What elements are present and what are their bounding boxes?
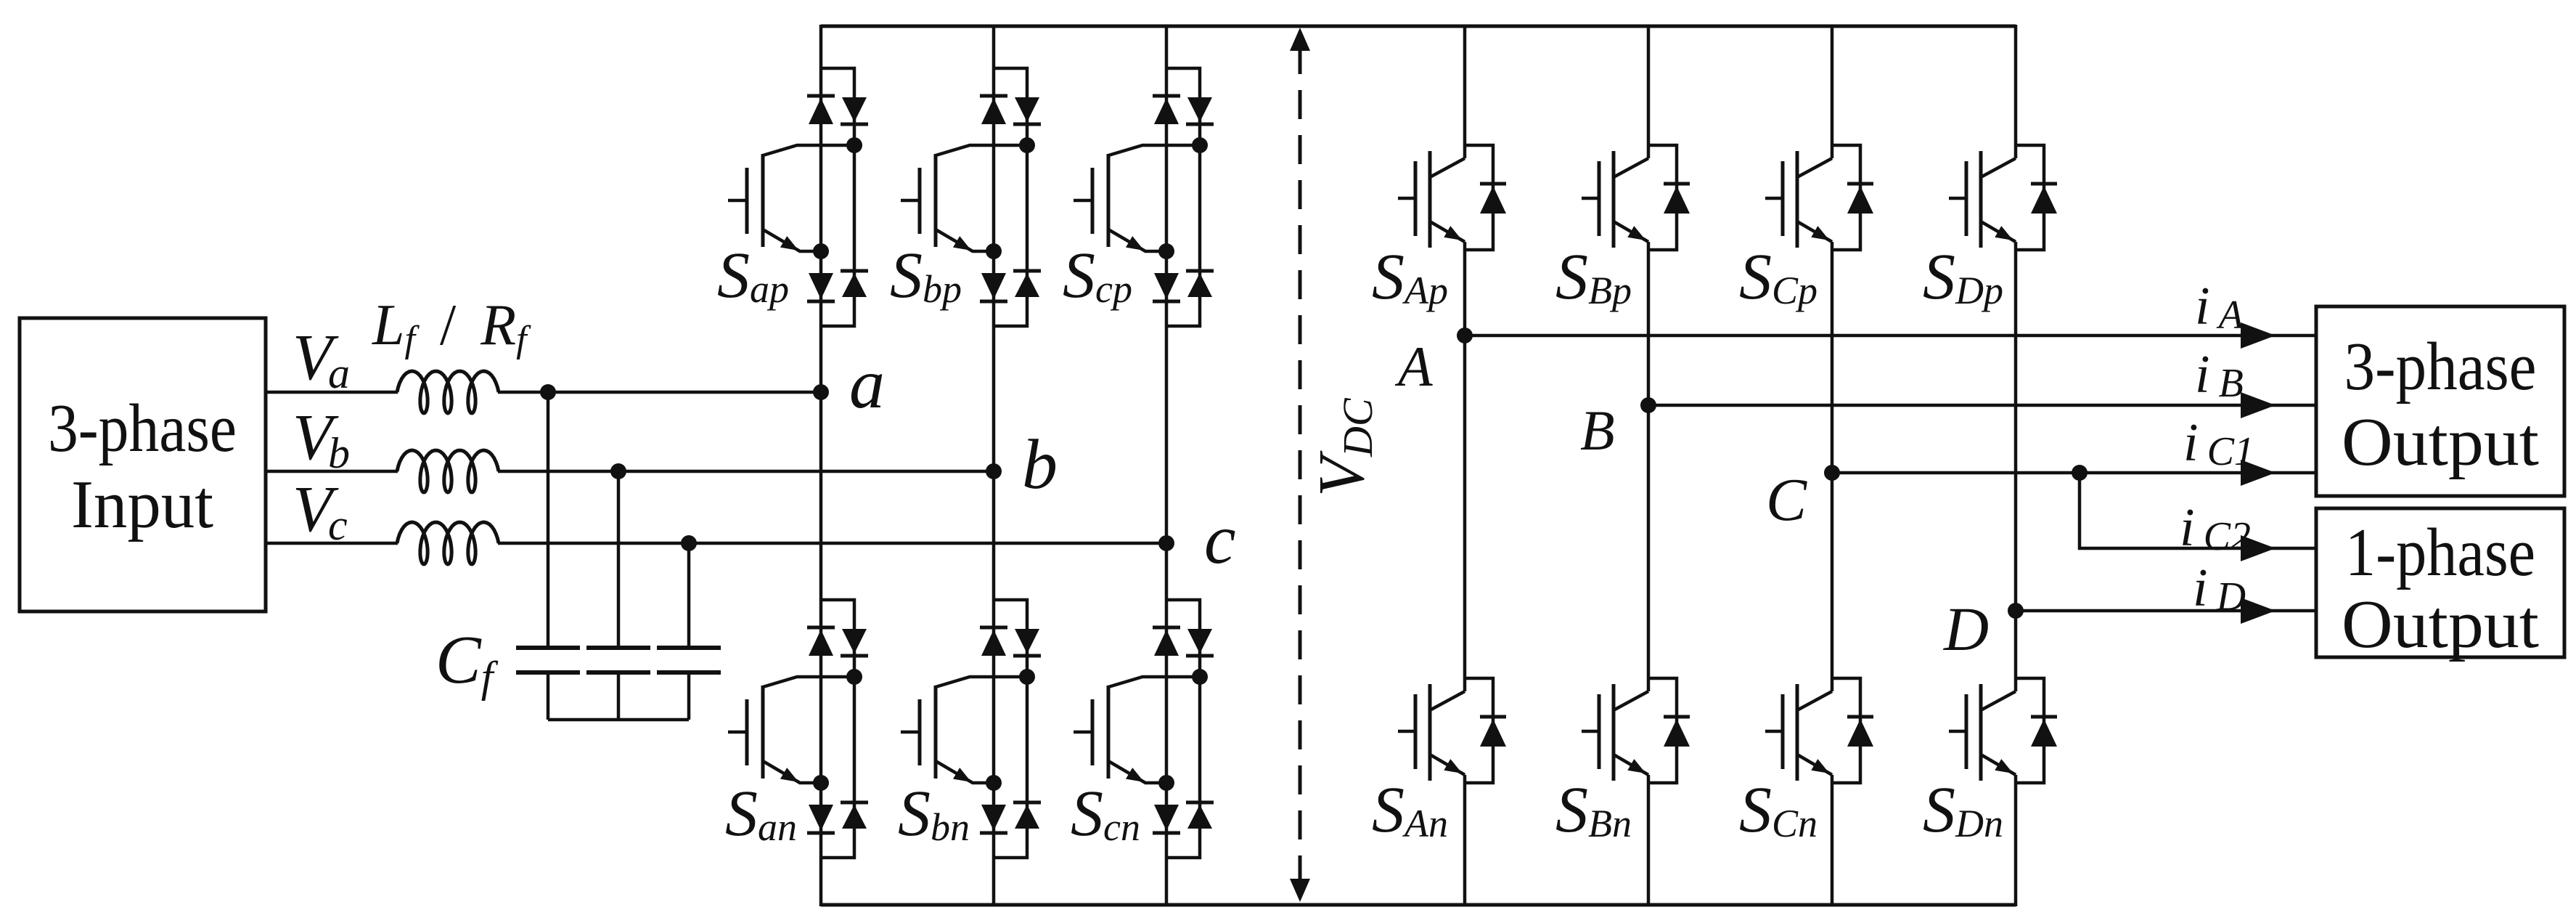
svg-text:C: C bbox=[1766, 466, 1807, 534]
IGBT SCp emitter line with arrow bbox=[1797, 221, 1832, 242]
diode Sbp bridge bottom-right (cathode up) bbox=[1013, 269, 1041, 273]
IGBT Sap gate bar bbox=[745, 168, 749, 234]
IGBT SCn emitter line with arrow bbox=[1797, 755, 1832, 775]
svg-text:1-phase: 1-phase bbox=[2345, 515, 2535, 590]
diode San bridge bottom-right (cathode up) bbox=[841, 801, 868, 805]
IGBT SDp gate bar bbox=[1965, 161, 1968, 236]
node: collector junction on branch bbox=[1019, 137, 1035, 153]
wire: parallel diode branch with top/bottom stubs bbox=[821, 68, 854, 326]
IGBT SDn gate bar bbox=[1965, 694, 1968, 769]
arrowhead iC2 bbox=[2241, 535, 2276, 561]
IGBT Scn body bar bbox=[1107, 686, 1111, 778]
IGBT Sap emitter line with arrow bbox=[763, 229, 821, 251]
wire: rectifier leg c rail bbox=[1165, 25, 1169, 906]
node: emitter junction on rail bbox=[813, 243, 829, 259]
IGBT SDn collector line bbox=[1981, 691, 2016, 710]
wire: inverter leg D rail segments bbox=[2014, 25, 2018, 158]
junction node on wire a bbox=[540, 384, 556, 400]
wire: inverter leg B rail segments bbox=[1647, 25, 1651, 158]
IGBT SAp body bar bbox=[1428, 151, 1432, 248]
node B bbox=[1640, 397, 1656, 413]
1-phase output box bbox=[2316, 508, 2564, 657]
IGBT San gate bar bbox=[745, 699, 749, 765]
wire: diode branch with stubs bbox=[1832, 145, 1860, 250]
inductor Lf phase b bbox=[397, 450, 499, 492]
node: collector junction on branch bbox=[846, 137, 862, 153]
IGBT SDn gate lead bbox=[1949, 730, 1966, 733]
svg-text:3-phase: 3-phase bbox=[2344, 329, 2537, 404]
diode Sap bridge top-left (cathode up) bbox=[807, 94, 835, 98]
node C bbox=[1824, 465, 1840, 481]
IGBT switch SDp with antiparallel diode bbox=[1923, 145, 2057, 313]
wire: Cf branch phase a drop bbox=[547, 392, 550, 646]
IGBT San emitter line with arrow bbox=[763, 761, 821, 783]
node D bbox=[2008, 603, 2024, 619]
svg-text:a: a bbox=[849, 345, 885, 423]
wire: DC top bus bbox=[821, 25, 2016, 28]
wire: diode branch with stubs bbox=[1832, 678, 1860, 783]
bidirectional switch Scp bbox=[1063, 68, 1214, 326]
IGBT Scn gate lead bbox=[1074, 731, 1092, 734]
capacitor Cf phase a bbox=[516, 646, 580, 650]
wire Vb bbox=[266, 470, 398, 473]
IGBT Sbp collector line bbox=[936, 145, 1027, 155]
IGBT SAn emitter line with arrow bbox=[1430, 755, 1465, 775]
IGBT SBn gate bar bbox=[1598, 694, 1601, 769]
diode Sbp bridge top-left (cathode up) bbox=[980, 94, 1007, 98]
IGBT SDp gate lead bbox=[1949, 197, 1966, 200]
IGBT SBp gate bar bbox=[1598, 161, 1601, 236]
bidirectional switch Sbn bbox=[898, 600, 1041, 858]
IGBT SCn gate lead bbox=[1765, 730, 1783, 733]
node: collector junction on branch bbox=[1192, 669, 1208, 685]
node b bbox=[986, 463, 1002, 479]
IGBT SAn body bar bbox=[1428, 684, 1432, 781]
IGBT San body bar bbox=[761, 686, 765, 778]
IGBT Scp gate lead bbox=[1074, 199, 1092, 203]
arrowhead iD bbox=[2241, 598, 2276, 624]
wire: Cf common star bus bbox=[548, 718, 689, 722]
antiparallel diode of SBn (cathode up) bbox=[1664, 715, 1690, 719]
IGBT Scn collector line bbox=[1108, 677, 1200, 687]
IGBT switch SCp with antiparallel diode bbox=[1739, 145, 1873, 313]
diode Sbp bridge bottom-left (cathode down) bbox=[981, 273, 1006, 299]
svg-text:Lf / Rf: Lf / Rf bbox=[372, 293, 531, 360]
wire: DC bottom bus bbox=[821, 903, 2016, 907]
svg-text:b: b bbox=[1022, 426, 1058, 504]
diode Scp bridge top-left (cathode up) bbox=[1153, 94, 1180, 98]
wire: inverter leg A rail segments bbox=[1463, 25, 1467, 158]
antiparallel diode of SBp (cathode up) bbox=[1664, 182, 1690, 186]
diode Scn bridge bottom-right (cathode up) bbox=[1186, 801, 1214, 805]
wire: rectifier leg a rail bbox=[819, 25, 823, 906]
wire: diode branch with stubs bbox=[1465, 678, 1493, 783]
VDC arrow down bbox=[1290, 879, 1310, 902]
wire iC1 bbox=[1832, 471, 2316, 475]
diode Sap bridge bottom-right (cathode up) bbox=[841, 269, 868, 273]
diode San bridge top-left (cathode up) bbox=[807, 626, 835, 630]
node a bbox=[813, 384, 829, 400]
IGBT SBn gate lead bbox=[1582, 730, 1599, 733]
svg-text:c: c bbox=[1204, 500, 1236, 579]
diode San bridge top-right (cathode down) bbox=[842, 629, 867, 654]
diode Scp bridge top-right (cathode down) bbox=[1187, 97, 1212, 122]
diode Scp bridge bottom-right (cathode up) bbox=[1186, 269, 1214, 273]
wire Vc bbox=[266, 542, 398, 545]
IGBT SAp gate lead bbox=[1398, 197, 1415, 200]
svg-text:Output: Output bbox=[2342, 404, 2539, 480]
IGBT switch SAn with antiparallel diode bbox=[1372, 678, 1506, 846]
IGBT Scn gate bar bbox=[1091, 699, 1095, 765]
wire: Cf phase a bottom lead bbox=[547, 672, 550, 720]
wire: Cf branch phase b drop bbox=[617, 471, 621, 646]
IGBT switch SDn with antiparallel diode bbox=[1923, 678, 2057, 846]
antiparallel diode of SDn (cathode up) bbox=[2031, 715, 2057, 719]
diode Scp bridge bottom-left (cathode down) bbox=[1154, 273, 1179, 299]
VDC dashed measurement line bbox=[1299, 45, 1302, 885]
wire: parallel diode branch with top/bottom stubs bbox=[1166, 68, 1200, 326]
capacitor Cf phase c bbox=[657, 646, 721, 650]
node: emitter junction on rail bbox=[1158, 243, 1174, 259]
node: emitter junction on rail bbox=[986, 243, 1002, 259]
diode Sbn bridge top-left (cathode up) bbox=[980, 626, 1007, 630]
diode Sbn bridge bottom-left (cathode down) bbox=[981, 805, 1006, 831]
3-phase input source box bbox=[20, 318, 266, 611]
bidirectional switch San bbox=[725, 600, 868, 858]
IGBT SAp gate bar bbox=[1414, 161, 1418, 236]
IGBT Sbn gate bar bbox=[918, 699, 922, 765]
antiparallel diode of SDp (cathode up) bbox=[2031, 182, 2057, 186]
wire: Cf branch phase c drop bbox=[687, 543, 691, 646]
wire: diode branch with stubs bbox=[2016, 678, 2044, 783]
node: collector junction on branch bbox=[1019, 669, 1035, 685]
IGBT SCp body bar bbox=[1796, 151, 1799, 248]
IGBT Sbp gate bar bbox=[918, 168, 922, 234]
wire Va: source to filter inductor bbox=[266, 391, 398, 394]
antiparallel diode of SCp (cathode up) bbox=[1847, 182, 1873, 186]
IGBT Scp gate bar bbox=[1091, 168, 1095, 234]
IGBT SCp collector line bbox=[1797, 158, 1832, 177]
IGBT SBp collector line bbox=[1614, 158, 1648, 177]
inductor Lf phase c bbox=[397, 522, 499, 564]
wire: Cf phase b bottom lead bbox=[617, 672, 621, 720]
IGBT SAn gate lead bbox=[1398, 730, 1415, 733]
diode Scn bridge top-left (cathode up) bbox=[1153, 626, 1180, 630]
IGBT SCp gate bar bbox=[1781, 161, 1785, 236]
IGBT SCn gate bar bbox=[1781, 694, 1785, 769]
IGBT SCn body bar bbox=[1796, 684, 1799, 781]
node A bbox=[1457, 328, 1473, 343]
svg-text:B: B bbox=[1580, 399, 1615, 462]
IGBT SBp emitter line with arrow bbox=[1614, 221, 1648, 242]
bidirectional switch Sbp bbox=[890, 68, 1041, 326]
node: emitter junction on rail bbox=[1158, 775, 1174, 791]
node: collector junction on branch bbox=[1192, 137, 1208, 153]
wire: inverter leg C rail segments bbox=[1831, 25, 1834, 158]
IGBT SBn collector line bbox=[1614, 691, 1648, 710]
IGBT SCp gate lead bbox=[1765, 197, 1783, 200]
IGBT Scp emitter line with arrow bbox=[1108, 229, 1166, 251]
IGBT Sbn body bar bbox=[934, 686, 938, 778]
inductor Lf phase a bbox=[397, 371, 499, 413]
wire: parallel diode branch with top/bottom stubs bbox=[994, 68, 1027, 326]
IGBT Sap collector line bbox=[763, 145, 854, 155]
bidirectional switch Scn bbox=[1071, 600, 1214, 858]
IGBT Scp collector line bbox=[1108, 145, 1200, 155]
svg-text:A: A bbox=[1394, 335, 1433, 398]
IGBT Sbn gate lead bbox=[901, 731, 920, 734]
IGBT SBn emitter line with arrow bbox=[1614, 755, 1648, 775]
svg-text:Output: Output bbox=[2342, 587, 2539, 662]
IGBT Sbn collector line bbox=[936, 677, 1027, 687]
IGBT switch SAp with antiparallel diode bbox=[1372, 145, 1506, 313]
IGBT SDn body bar bbox=[1979, 684, 1983, 781]
IGBT Sbp body bar bbox=[934, 154, 938, 247]
wire: phase c to node c bbox=[498, 542, 1166, 545]
diode Sbn bridge bottom-right (cathode up) bbox=[1013, 801, 1041, 805]
wire: parallel diode branch with top/bottom stubs bbox=[821, 600, 854, 858]
IGBT SBn body bar bbox=[1612, 684, 1616, 781]
IGBT San collector line bbox=[763, 677, 854, 687]
3-phase output box bbox=[2316, 306, 2564, 496]
node: emitter junction on rail bbox=[986, 775, 1002, 791]
IGBT switch SBp with antiparallel diode bbox=[1555, 145, 1690, 313]
IGBT SBp body bar bbox=[1612, 151, 1616, 248]
diode Scn bridge top-right (cathode down) bbox=[1187, 629, 1212, 654]
IGBT SAn gate bar bbox=[1414, 694, 1418, 769]
wire iC2 branch bbox=[2080, 473, 2316, 548]
capacitor Cf phase b bbox=[586, 646, 650, 650]
wire: diode branch with stubs bbox=[2016, 145, 2044, 250]
IGBT Sap body bar bbox=[761, 154, 765, 247]
junction node C2 bbox=[2072, 465, 2088, 481]
IGBT SAp collector line bbox=[1430, 158, 1465, 177]
IGBT Scn emitter line with arrow bbox=[1108, 761, 1166, 783]
svg-text:D: D bbox=[1943, 594, 1989, 664]
IGBT SDp body bar bbox=[1979, 151, 1983, 248]
diode Sap bridge bottom-left (cathode down) bbox=[809, 273, 833, 299]
diode Scn bridge bottom-left (cathode down) bbox=[1154, 805, 1179, 831]
IGBT San gate lead bbox=[728, 731, 747, 734]
wire: parallel diode branch with top/bottom stubs bbox=[1166, 600, 1200, 858]
svg-text:3-phase: 3-phase bbox=[48, 391, 237, 466]
wire iD bbox=[2016, 609, 2316, 613]
IGBT Sbn emitter line with arrow bbox=[936, 761, 994, 783]
IGBT SAn collector line bbox=[1430, 691, 1465, 710]
diode Sbp bridge top-right (cathode down) bbox=[1015, 97, 1039, 122]
IGBT switch SCn with antiparallel diode bbox=[1739, 678, 1873, 846]
wire: diode branch with stubs bbox=[1648, 145, 1677, 250]
IGBT SDp collector line bbox=[1981, 158, 2016, 177]
antiparallel diode of SCn (cathode up) bbox=[1847, 715, 1873, 719]
diode Sbn bridge top-right (cathode down) bbox=[1015, 629, 1039, 654]
antiparallel diode of SAp (cathode up) bbox=[1480, 182, 1506, 186]
IGBT Sbp gate lead bbox=[901, 199, 920, 203]
wire iB bbox=[1648, 404, 2316, 407]
IGBT Scp body bar bbox=[1107, 154, 1111, 247]
node: collector junction on branch bbox=[846, 669, 862, 685]
IGBT Sap gate lead bbox=[728, 199, 747, 203]
wire: diode branch with stubs bbox=[1648, 678, 1677, 783]
diode Sap bridge top-right (cathode down) bbox=[842, 97, 867, 122]
IGBT SDn emitter line with arrow bbox=[1981, 755, 2016, 775]
arrowhead iC1 bbox=[2241, 460, 2276, 486]
svg-text:Input: Input bbox=[71, 467, 213, 542]
IGBT SAp emitter line with arrow bbox=[1430, 221, 1465, 242]
junction node on wire c bbox=[681, 535, 697, 551]
wire: Cf phase c bottom lead bbox=[687, 672, 691, 720]
wire: parallel diode branch with top/bottom stubs bbox=[994, 600, 1027, 858]
node: emitter junction on rail bbox=[813, 775, 829, 791]
junction node on wire b bbox=[610, 463, 626, 479]
arrowhead iB bbox=[2241, 392, 2276, 418]
wire iA: node A to 3-phase output bbox=[1465, 334, 2316, 338]
node c bbox=[1158, 535, 1174, 551]
diode San bridge bottom-left (cathode down) bbox=[809, 805, 833, 831]
arrowhead iA bbox=[2241, 322, 2276, 349]
IGBT SDp emitter line with arrow bbox=[1981, 221, 2016, 242]
bidirectional switch Sap bbox=[717, 68, 868, 326]
IGBT SBp gate lead bbox=[1582, 197, 1599, 200]
VDC arrow up bbox=[1290, 28, 1310, 51]
IGBT switch SBn with antiparallel diode bbox=[1555, 678, 1690, 846]
IGBT Sbp emitter line with arrow bbox=[936, 229, 994, 251]
wire: rectifier leg b rail bbox=[992, 25, 996, 906]
antiparallel diode of SAn (cathode up) bbox=[1480, 715, 1506, 719]
wire: diode branch with stubs bbox=[1465, 145, 1493, 250]
wire: phase a to node a bbox=[498, 391, 821, 394]
wire: phase b to node b bbox=[498, 470, 994, 473]
IGBT SCn collector line bbox=[1797, 691, 1832, 710]
